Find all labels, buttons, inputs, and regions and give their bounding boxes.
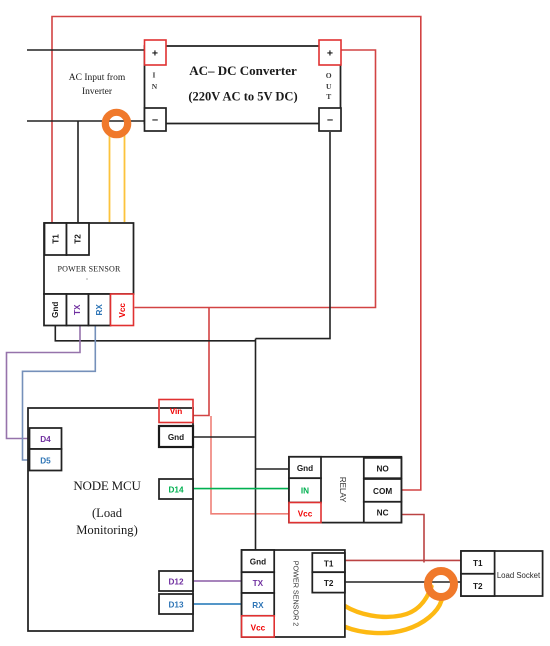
wire: CT clamp yellow lead 2	[124, 128, 126, 222]
wire: light red from Vin corner down to relay Vcc	[211, 416, 289, 514]
svg-text:Gnd: Gnd	[51, 302, 60, 318]
wire: Power Sensor Gnd stub	[55, 326, 255, 341]
svg-text:NO: NO	[376, 465, 389, 474]
svg-text:O: O	[326, 71, 332, 80]
svg-text:RX: RX	[95, 304, 104, 316]
svg-text:–: –	[152, 114, 158, 126]
wire: ground bus vertical down to Power Sensor 2 Gnd	[255, 339, 257, 550]
svg-text:U: U	[326, 82, 332, 91]
wire: yellow CT lead curve 2	[345, 601, 442, 634]
POWER SENSOR 1 box	[44, 223, 134, 294]
svg-text:I: I	[153, 71, 156, 80]
MCU pin D4	[30, 428, 62, 449]
MCU pin D13	[159, 594, 193, 614]
svg-text:Gnd: Gnd	[250, 558, 266, 567]
MCU pin D5	[30, 449, 62, 471]
PS2 terminal T1	[312, 553, 345, 572]
wire: AC input line 1 (black) to converter +IN	[27, 49, 145, 51]
MCU pin D12	[159, 571, 193, 591]
wire: black Power Sensor 2 T2 to Load Socket T2	[345, 581, 461, 583]
PS2 pin TX	[242, 572, 275, 593]
svg-text:AC– DC Converter: AC– DC Converter	[189, 63, 297, 78]
relay pin COM	[364, 479, 402, 502]
svg-text:POWER SENSOR 2: POWER SENSOR 2	[292, 561, 301, 627]
terminal -OUT	[319, 108, 341, 131]
svg-text:Vin: Vin	[170, 407, 183, 416]
terminal +OUT	[319, 40, 341, 65]
PS1 pin Vcc	[111, 294, 134, 326]
wire: AC live red from top-left down to Power Sensor T1	[52, 17, 421, 491]
RELAY U3 box	[289, 457, 401, 523]
Load Socket box	[461, 551, 543, 596]
relay pin IN	[289, 478, 321, 502]
svg-text:–: –	[327, 114, 333, 126]
svg-text:TX: TX	[253, 579, 264, 588]
wire: ground branch to NodeMCU Gnd	[193, 436, 256, 438]
wire: green D14 to relay IN	[193, 488, 289, 490]
wire: blue NodeMCU D13 to Power Sensor 2 RX	[193, 603, 242, 605]
svg-text:D4: D4	[40, 435, 51, 444]
PS2 pin RX	[242, 593, 275, 616]
wire: AC input line 2 (black) to converter -IN	[27, 120, 145, 122]
svg-text:T1: T1	[324, 559, 334, 568]
svg-text:RX: RX	[252, 601, 264, 610]
svg-text:T1: T1	[473, 559, 483, 568]
svg-text:NC: NC	[377, 509, 389, 518]
wire: CT clamp yellow lead 1	[109, 128, 111, 222]
wire: ground bus black from converter -OUT to Power Sensor Gnd	[256, 132, 331, 339]
relay pin NC	[364, 502, 402, 523]
svg-text:T2: T2	[473, 582, 483, 591]
svg-text:.: .	[86, 273, 88, 282]
PS1 terminal T1	[45, 223, 67, 255]
svg-text:D13: D13	[168, 600, 183, 609]
PS2 pin Gnd	[242, 550, 275, 572]
terminal +IN	[145, 40, 167, 65]
wire: purple NodeMCU D12 to Power Sensor 2 TX	[193, 580, 242, 582]
svg-text:+: +	[152, 48, 158, 60]
wire: blue Power Sensor RX to NodeMCU D5	[23, 326, 96, 461]
CT clamp (orange donut) on AC line	[105, 112, 127, 134]
svg-text:Monitoring): Monitoring)	[76, 523, 138, 537]
wire: NodeMCU top border segment through Vin pin	[160, 407, 192, 409]
svg-text:D5: D5	[40, 456, 51, 465]
svg-text:Vcc: Vcc	[118, 303, 127, 318]
socket terminal T1	[461, 551, 495, 574]
relay pin NO	[364, 458, 402, 478]
svg-text:+: +	[327, 48, 333, 60]
svg-text:COM: COM	[373, 487, 392, 496]
wire: dark red Power Sensor 2 T1 to Load Socket T1	[345, 559, 461, 561]
svg-text:D14: D14	[168, 485, 183, 494]
PS1 terminal T2	[67, 223, 90, 255]
svg-text:Inverter: Inverter	[82, 87, 113, 97]
PS1 pin Gnd	[44, 294, 67, 326]
socket terminal T2	[461, 574, 495, 596]
svg-text:N: N	[152, 82, 158, 91]
svg-text:Vcc: Vcc	[251, 623, 266, 632]
svg-text:T1: T1	[52, 234, 61, 244]
wire: purple Power Sensor TX to NodeMCU D4	[7, 326, 81, 439]
POWER SENSOR 2 box	[242, 550, 345, 637]
MCU pin D14	[159, 479, 193, 499]
svg-text:Vcc: Vcc	[298, 509, 313, 518]
svg-text:T2: T2	[74, 234, 83, 244]
wire: dark red relay NC to load socket T1 line	[401, 515, 424, 563]
wire: black branch to Power Sensor T2	[77, 121, 79, 223]
svg-text:AC Input from: AC Input from	[69, 72, 126, 83]
MCU pin Gnd	[159, 426, 193, 447]
svg-text:D12: D12	[168, 577, 183, 586]
MCU pin Vin	[159, 400, 193, 423]
terminal -IN	[145, 108, 167, 131]
svg-text:POWER SENSOR: POWER SENSOR	[57, 265, 121, 274]
svg-text:IN: IN	[301, 487, 309, 496]
wire: yellow CT lead curve 1	[345, 587, 432, 617]
PS2 terminal T2	[312, 572, 345, 592]
svg-text:Gnd: Gnd	[297, 464, 313, 473]
relay pin Vcc	[289, 503, 321, 523]
PS1 pin TX	[67, 294, 89, 326]
CT clamp 2 (orange donut) on load line	[428, 571, 454, 597]
svg-text:Gnd: Gnd	[168, 433, 184, 442]
svg-text:(220V AC to 5V DC): (220V AC to 5V DC)	[188, 90, 297, 104]
svg-text:NODE MCU: NODE MCU	[73, 478, 141, 493]
wire: red branch down to NodeMCU Vin	[194, 308, 210, 416]
svg-text:Load Socket: Load Socket	[497, 571, 541, 580]
wire: +5V red from converter +OUT to Power Sensor Vcc	[135, 50, 376, 308]
svg-text:T2: T2	[324, 579, 334, 588]
wire: ground branch to relay Gnd	[256, 468, 290, 470]
svg-text:TX: TX	[73, 304, 82, 315]
svg-text:(Load: (Load	[92, 506, 123, 520]
relay pin Gnd	[289, 457, 321, 478]
AC-DC converter U1 box	[145, 46, 341, 124]
svg-text:T: T	[326, 92, 331, 101]
NODE MCU U2 box	[28, 408, 193, 631]
PS1 pin RX	[89, 294, 111, 326]
PS2 pin Vcc	[242, 616, 275, 637]
svg-text:RELAY: RELAY	[338, 477, 347, 503]
